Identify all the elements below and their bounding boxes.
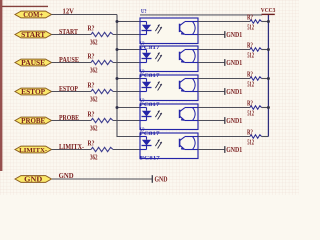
svg-text:PC817: PC817	[140, 131, 161, 137]
svg-text:R?: R?	[247, 71, 253, 78]
svg-text:GND1: GND1	[226, 117, 242, 125]
svg-text:START: START	[21, 32, 46, 39]
svg-text:LIMITX-: LIMITX-	[19, 147, 47, 154]
svg-text:R?: R?	[88, 53, 95, 61]
svg-text:R?: R?	[88, 25, 95, 33]
svg-text:362: 362	[90, 66, 98, 74]
svg-text:R?: R?	[247, 100, 253, 107]
svg-text:PAUSE: PAUSE	[21, 60, 46, 67]
svg-text:362: 362	[90, 38, 98, 46]
svg-text:COM+: COM+	[23, 12, 43, 19]
svg-text:512: 512	[247, 25, 254, 32]
svg-text:VCC3: VCC3	[261, 8, 276, 14]
svg-text:R?: R?	[88, 82, 95, 90]
svg-text:GND1: GND1	[226, 31, 242, 39]
svg-text:GND1: GND1	[226, 88, 242, 96]
svg-text:U?: U?	[141, 9, 147, 15]
svg-text:PC817: PC817	[140, 155, 161, 161]
svg-text:362: 362	[90, 153, 98, 161]
svg-text:512: 512	[247, 140, 254, 147]
svg-text:GND: GND	[24, 176, 42, 183]
svg-text:PROBE: PROBE	[21, 118, 45, 125]
svg-text:ESTOP: ESTOP	[21, 89, 45, 96]
svg-text:512: 512	[247, 82, 254, 89]
svg-text:R?: R?	[88, 111, 95, 119]
svg-text:512: 512	[247, 111, 254, 118]
svg-text:R?: R?	[247, 42, 253, 49]
svg-text:PC817: PC817	[140, 45, 161, 51]
svg-text:R?: R?	[88, 140, 95, 148]
svg-text:R?: R?	[247, 129, 253, 136]
svg-text:R?: R?	[247, 14, 253, 21]
svg-text:362: 362	[90, 124, 98, 132]
svg-text:PC817: PC817	[140, 102, 161, 108]
svg-text:GND: GND	[155, 175, 168, 183]
svg-text:GND1: GND1	[226, 146, 242, 154]
svg-text:GND1: GND1	[226, 59, 242, 67]
svg-text:362: 362	[90, 95, 98, 103]
svg-text:PC817: PC817	[140, 73, 161, 79]
svg-text:512: 512	[247, 53, 254, 60]
